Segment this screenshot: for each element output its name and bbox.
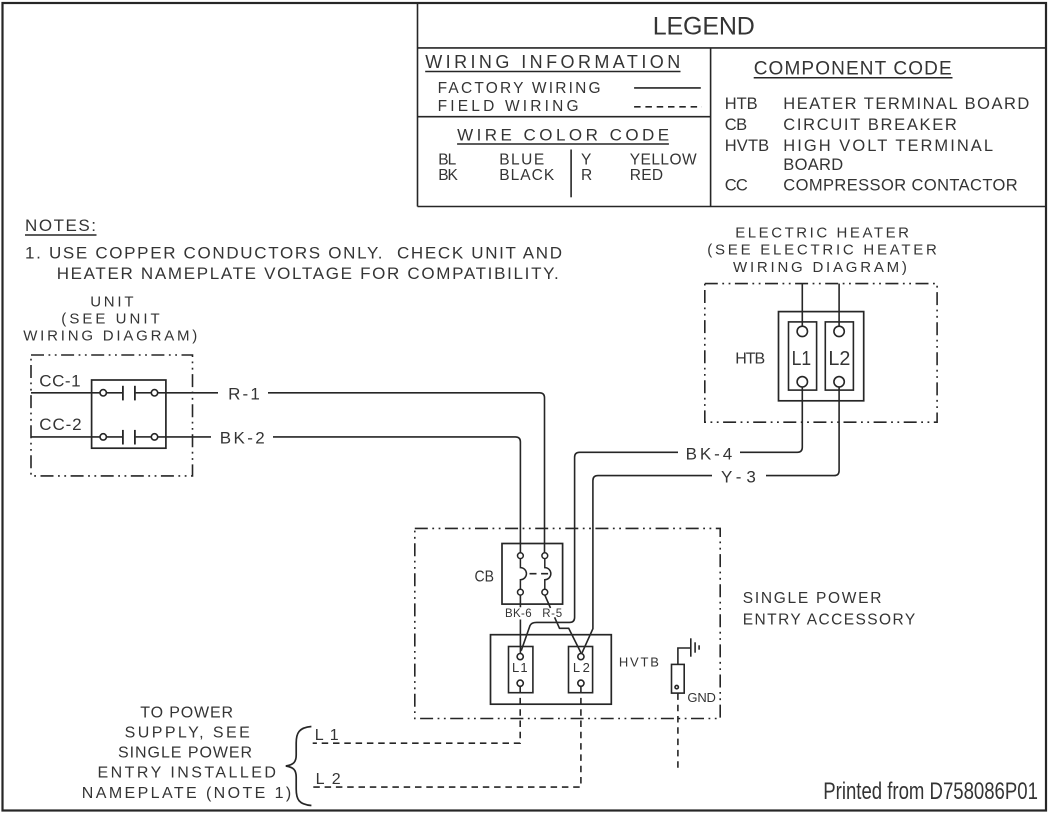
svg-text:ENTRY ACCESSORY: ENTRY ACCESSORY <box>743 612 915 629</box>
svg-text:BL: BL <box>438 151 456 168</box>
svg-text:BOARD: BOARD <box>783 156 843 174</box>
contact CC-1 <box>100 386 158 401</box>
wire CC-2 left stub <box>31 436 100 438</box>
svg-text:BK-4: BK-4 <box>686 444 733 463</box>
svg-text:HEATER NAMEPLATE VOLTAGE FOR C: HEATER NAMEPLATE VOLTAGE FOR COMPATIBILI… <box>57 264 559 283</box>
svg-text:BK-2: BK-2 <box>220 429 265 448</box>
svg-text:NAMEPLATE (NOTE 1): NAMEPLATE (NOTE 1) <box>82 785 291 802</box>
svg-text:CC-1: CC-1 <box>39 372 80 391</box>
contact CC-2 <box>100 430 158 445</box>
svg-text:L1: L1 <box>512 660 528 675</box>
svg-text:Printed from D758086P01: Printed from D758086P01 <box>823 778 1038 805</box>
heater terminal board HTB box <box>779 312 864 401</box>
svg-text:Y: Y <box>581 151 591 168</box>
wire Y-3 <box>582 387 839 653</box>
svg-text:WIRE COLOR CODE: WIRE COLOR CODE <box>457 126 669 145</box>
to power supply note <box>82 704 291 801</box>
svg-text:UNIT: UNIT <box>90 294 133 311</box>
wire BK-6 <box>519 595 521 653</box>
svg-text:WIRING INFORMATION: WIRING INFORMATION <box>425 52 680 72</box>
component code entries <box>725 95 1030 194</box>
ground symbol <box>691 638 699 656</box>
svg-text:L2: L2 <box>316 771 341 788</box>
svg-text:RED: RED <box>630 167 663 184</box>
circuit breaker CB box <box>502 544 563 605</box>
ground lead wire <box>678 648 691 664</box>
svg-text:R-1: R-1 <box>228 385 260 404</box>
label SINGLE POWER ENTRY ACCESSORY <box>743 590 915 629</box>
notes heading <box>25 216 97 235</box>
wire into HTB L1 top <box>801 284 803 327</box>
svg-text:CC: CC <box>725 176 748 194</box>
HTB terminal L1 <box>789 322 817 390</box>
wire R-1 <box>158 393 545 553</box>
wire R-5 <box>545 595 581 653</box>
svg-text:YELLOW: YELLOW <box>630 151 697 168</box>
HVTB terminal L1 <box>509 647 533 693</box>
high volt terminal board HVTB box <box>491 635 612 705</box>
svg-text:WIRING DIAGRAM): WIRING DIAGRAM) <box>733 259 907 276</box>
unit dash-dot box <box>31 355 193 476</box>
HTB dash-dot box <box>705 284 937 423</box>
svg-text:(SEE ELECTRIC HEATER: (SEE ELECTRIC HEATER <box>707 242 937 259</box>
svg-text:Y-3: Y-3 <box>721 467 756 486</box>
ground lug block <box>672 664 685 693</box>
wire CC-1 left stub <box>31 392 100 394</box>
svg-text:SINGLE POWER: SINGLE POWER <box>743 590 882 607</box>
wiring information heading <box>425 52 680 72</box>
svg-text:CB: CB <box>725 116 747 134</box>
svg-text:HTB: HTB <box>725 95 758 113</box>
svg-text:L1: L1 <box>315 727 339 744</box>
HTB terminal L2 <box>825 322 853 390</box>
svg-text:TO POWER: TO POWER <box>140 704 233 721</box>
svg-text:CIRCUIT BREAKER: CIRCUIT BREAKER <box>783 116 957 134</box>
svg-text:(SEE UNIT: (SEE UNIT <box>61 311 159 328</box>
field wire L2 dashed <box>313 687 581 788</box>
svg-text:BK-6: BK-6 <box>505 608 532 620</box>
svg-text:R: R <box>581 167 592 184</box>
svg-text:HIGH VOLT TERMINAL: HIGH VOLT TERMINAL <box>783 137 993 155</box>
CB pole 1 <box>518 553 527 595</box>
svg-text:FIELD WIRING: FIELD WIRING <box>438 98 579 115</box>
CB pole 2 <box>542 553 551 595</box>
CB trip tie dashed <box>530 573 552 575</box>
svg-text:COMPRESSOR CONTACTOR: COMPRESSOR CONTACTOR <box>783 176 1017 194</box>
svg-text:FACTORY WIRING: FACTORY WIRING <box>438 80 601 97</box>
svg-text:1. USE COPPER CONDUCTORS ONLY.: 1. USE COPPER CONDUCTORS ONLY. CHECK UNI… <box>25 243 562 262</box>
wire BK-2 <box>158 437 521 553</box>
svg-text:ELECTRIC HEATER: ELECTRIC HEATER <box>735 224 909 241</box>
svg-text:COMPONENT CODE: COMPONENT CODE <box>754 58 952 79</box>
svg-text:R-5: R-5 <box>542 608 562 620</box>
svg-text:CB: CB <box>475 569 495 586</box>
svg-text:BLACK: BLACK <box>499 167 555 184</box>
svg-text:SUPPLY, SEE: SUPPLY, SEE <box>125 725 250 742</box>
legend box outline <box>418 3 1047 207</box>
note 1 text <box>25 243 562 283</box>
svg-text:CC-2: CC-2 <box>39 415 81 434</box>
svg-text:HVTB: HVTB <box>619 655 659 670</box>
svg-text:NOTES:: NOTES: <box>25 216 96 235</box>
svg-text:ENTRY INSTALLED: ENTRY INSTALLED <box>98 765 276 782</box>
wire BK-4 <box>521 387 802 651</box>
svg-text:LEGEND: LEGEND <box>653 13 755 41</box>
factory wiring solid line sample <box>634 87 701 89</box>
field wiring dashed line sample <box>634 106 702 108</box>
unit label <box>23 294 197 345</box>
field wire L1 dashed <box>313 687 521 744</box>
svg-text:WIRING DIAGRAM): WIRING DIAGRAM) <box>23 328 197 345</box>
electric heater label <box>707 224 937 276</box>
HVTB terminal L2 <box>569 647 593 693</box>
component code heading <box>754 58 953 79</box>
svg-text:HTB: HTB <box>735 351 765 368</box>
wire into HTB L2 top <box>838 284 840 327</box>
svg-text:L2: L2 <box>573 660 590 675</box>
brace <box>286 727 312 806</box>
svg-text:SINGLE POWER: SINGLE POWER <box>118 745 252 762</box>
svg-text:HVTB: HVTB <box>725 137 770 155</box>
svg-text:GND: GND <box>687 690 716 705</box>
wire color code entries <box>438 151 697 184</box>
field ground wire dashed <box>677 693 679 770</box>
wire color code table divider <box>570 150 572 198</box>
svg-text:BLUE: BLUE <box>499 151 544 168</box>
svg-text:L2: L2 <box>828 348 850 370</box>
wire color code heading <box>457 126 669 145</box>
svg-text:L1: L1 <box>792 348 812 370</box>
single power entry dash-dot box <box>415 528 720 718</box>
compressor contactor box CC <box>92 380 166 448</box>
svg-text:BK: BK <box>438 167 458 184</box>
svg-text:HEATER TERMINAL BOARD: HEATER TERMINAL BOARD <box>783 95 1029 113</box>
